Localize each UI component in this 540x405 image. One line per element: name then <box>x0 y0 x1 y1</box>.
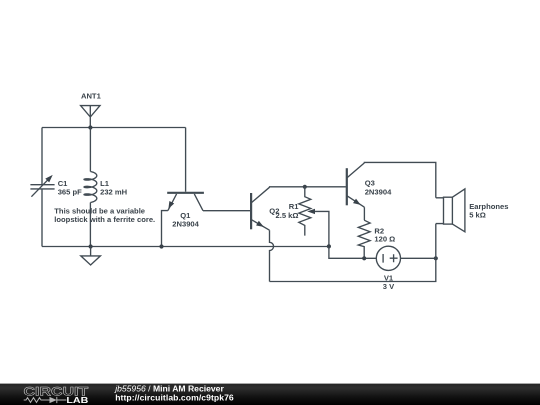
transistor Q3 <box>347 163 392 207</box>
wire Q3 emitter to R2 <box>363 207 365 220</box>
wire Q2 emitter down with hop <box>270 230 274 281</box>
node R1 top junction <box>303 185 307 189</box>
node R2 bottom junction <box>362 256 366 260</box>
wire to V1 minus <box>329 246 376 258</box>
node Q1 emitter junction <box>159 244 163 248</box>
wire mid rail Q2 collector to Q3 base <box>270 186 346 188</box>
transistor Q1 <box>167 128 204 229</box>
svg-text:Q1: Q1 <box>180 211 191 220</box>
svg-text:365 pF: 365 pF <box>58 188 82 197</box>
footer bar <box>0 384 540 405</box>
svg-text:Q3: Q3 <box>365 178 375 187</box>
node right rail junction <box>434 256 438 260</box>
wire V1 plus to right rail <box>401 257 436 259</box>
wire Q1 collector to Q2 base <box>203 210 250 212</box>
wire bottom rail <box>42 246 329 248</box>
wire Q3 collector top to earphones <box>364 162 435 197</box>
wire left branch lower <box>41 189 43 247</box>
wire left branch upper <box>41 128 43 185</box>
svg-text:120 Ω: 120 Ω <box>374 235 395 244</box>
svg-text:2.5 kΩ: 2.5 kΩ <box>276 211 299 220</box>
wire top rail from tank to Q1 base <box>42 127 186 129</box>
svg-text:3 V: 3 V <box>383 282 395 291</box>
wire bottom loop <box>270 258 436 281</box>
wire L1 top lead <box>89 128 91 172</box>
svg-text:2N3904: 2N3904 <box>365 188 392 197</box>
logo squiggle resistor+diode <box>24 397 67 403</box>
annotation note <box>54 207 155 224</box>
svg-text:Earphones: Earphones <box>469 202 508 211</box>
ground <box>81 247 101 266</box>
potentiometer R1 <box>276 187 329 247</box>
svg-text:2N3904: 2N3904 <box>172 220 199 229</box>
transistor Q2 <box>251 187 279 230</box>
wire L1 bottom lead <box>89 203 91 247</box>
node L1/ground junction <box>89 244 93 248</box>
antenna ANT1 <box>81 92 102 128</box>
svg-text:5 kΩ: 5 kΩ <box>469 211 486 220</box>
node antenna junction <box>88 125 92 129</box>
svg-text:ANT1: ANT1 <box>81 92 102 101</box>
voltage source V1 <box>376 246 400 291</box>
inductor L1 <box>84 172 127 203</box>
wire Q1 emitter to bottom rail <box>162 211 168 247</box>
svg-text:http://circuitlab.com/c9tpk76: http://circuitlab.com/c9tpk76 <box>115 392 234 402</box>
node wiper/bottom rail junction <box>327 244 331 248</box>
capacitor C1 <box>30 175 82 197</box>
resistor R2 <box>358 220 395 258</box>
svg-text:LAB: LAB <box>66 395 88 405</box>
svg-text:R1: R1 <box>289 202 299 211</box>
svg-text:232 mH: 232 mH <box>100 188 127 197</box>
speaker Earphones <box>436 189 509 258</box>
svg-text:loopstick with a ferrite core.: loopstick with a ferrite core. <box>54 215 155 224</box>
